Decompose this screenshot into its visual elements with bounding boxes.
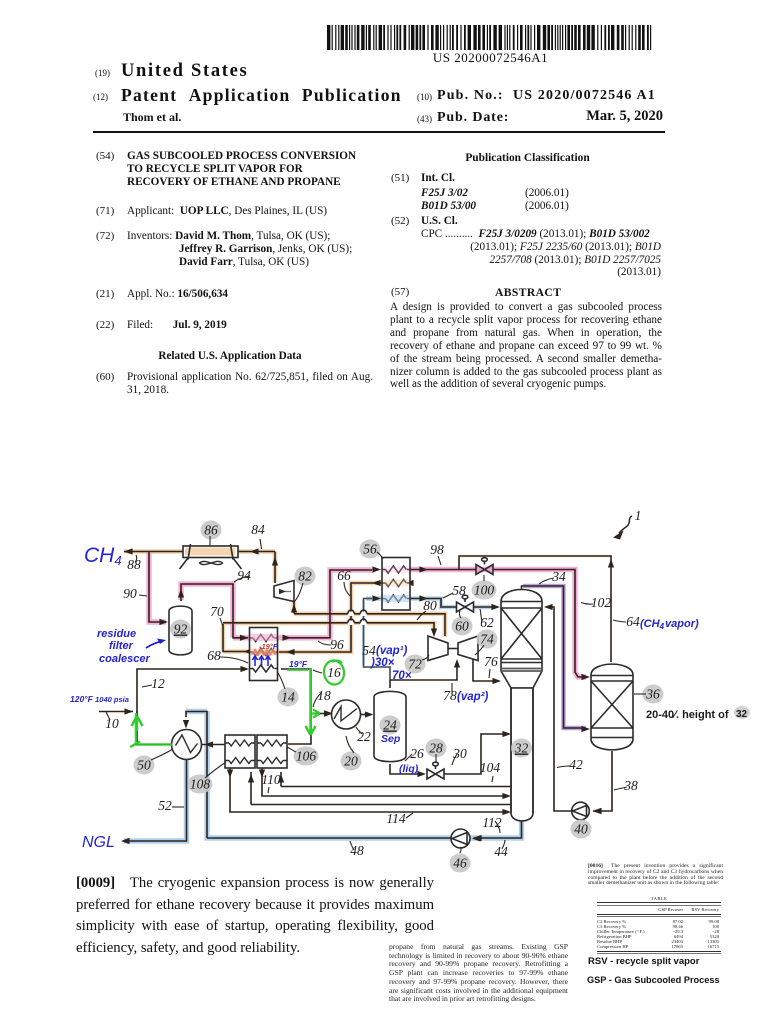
compressor 82: [274, 581, 294, 602]
svg-text:110: 110: [261, 772, 280, 787]
wire: purple line from column 34 top to vessel 36: [522, 586, 586, 728]
svg-text:46: 46: [453, 856, 467, 871]
wire: exchanger 50 to exchanger 106: [201, 744, 225, 746]
arrowheads over equipment: [324, 710, 601, 841]
svg-text:102: 102: [591, 595, 612, 610]
svg-text:36: 36: [645, 687, 660, 702]
svg-text:86: 86: [204, 523, 218, 538]
svg-text:52: 52: [158, 798, 172, 813]
comparison table: [597, 896, 721, 954]
wire 88: CH4 residue gas line: [124, 551, 275, 553]
svg-text:64: 64: [626, 614, 640, 629]
svg-text:88: 88: [127, 557, 141, 572]
vessel 36 (second demethanizer): [591, 664, 633, 750]
wire 94: filter 92 to exchanger 14: [181, 584, 248, 638]
pump 46: [451, 829, 470, 848]
column 32 (lower demethanizer): [511, 688, 533, 821]
wire highlight: purple line 34 path: [523, 586, 586, 728]
svg-text:108: 108: [190, 777, 211, 792]
wire 70: exchanger 14 to compressor 82: [294, 614, 445, 636]
svg-text:20: 20: [344, 754, 358, 769]
wire 84: [274, 552, 276, 584]
svg-text:92: 92: [174, 622, 188, 637]
svg-text:20-40∕. height of: 20-40∕. height of: [646, 709, 729, 721]
svg-text:76: 76: [484, 654, 498, 669]
svg-text:94: 94: [237, 568, 251, 583]
svg-text:(vap²): (vap²): [457, 691, 488, 703]
wire 58: exchanger 56 bottom row to valve 60: [410, 599, 457, 608]
wire 52: exchanger 50 bottoms to NGL: [126, 760, 187, 842]
svg-text:26: 26: [410, 746, 424, 761]
wire: compressor 82 suction: [293, 601, 295, 614]
wire: reboiler return upper: [262, 768, 507, 796]
wire 96: exchanger 14 to exchanger 56: [284, 570, 372, 638]
left biblio column: [96, 150, 114, 162]
svg-text:60: 60: [455, 619, 469, 634]
svg-text:filter: filter: [109, 640, 134, 652]
blue up-arrows inside exchanger 14: [252, 656, 270, 666]
svg-text:80: 80: [423, 598, 437, 613]
filter coalescer 92: [169, 606, 192, 655]
heat exchanger 20: [332, 700, 361, 729]
svg-text:16: 16: [327, 665, 341, 680]
svg-text:68: 68: [207, 648, 221, 663]
heat exchanger 14: [250, 628, 278, 681]
svg-text:1: 1: [635, 508, 642, 523]
svg-text:32: 32: [514, 741, 529, 756]
wire highlight: light blue line 58/62: [364, 599, 495, 666]
blue arrow for coalescer note: [146, 641, 163, 648]
wire 12: feed riser to exchanger 14: [137, 669, 245, 745]
wire 90: [149, 552, 166, 623]
wire 102: valve 100 to vessel 36: [492, 570, 585, 678]
column 34 (upper demethanizer section): [501, 590, 542, 689]
svg-text:114: 114: [386, 811, 405, 826]
handwritten blue annotations: [70, 544, 699, 851]
svg-text:54: 54: [362, 643, 376, 658]
expander 72: [428, 636, 448, 661]
green feed arrow: [132, 716, 143, 731]
arrowheads on wires: [124, 548, 133, 554]
svg-text:56: 56: [363, 542, 377, 557]
barcode: [0, 0, 768, 70]
green line 18 marks: [306, 668, 316, 735]
svg-text:Sep: Sep: [381, 733, 401, 745]
svg-text:32: 32: [736, 709, 748, 720]
svg-text:74: 74: [480, 632, 494, 647]
svg-text:38: 38: [623, 778, 638, 793]
svg-text:66: 66: [337, 568, 351, 583]
wire 104: column side draw: [281, 772, 511, 787]
wire 114: reboiler return lower: [230, 768, 507, 812]
svg-text:)30×: )30×: [369, 657, 395, 669]
bottom paragraphs: [76, 873, 434, 959]
svg-text:(liq): (liq): [399, 763, 419, 775]
svg-text:78: 78: [443, 688, 457, 703]
svg-text:(vap¹): (vap¹): [376, 645, 407, 657]
svg-text:34: 34: [551, 569, 566, 584]
wire 66 west leg: [223, 624, 250, 652]
valve 28: [427, 762, 444, 779]
header: [95, 68, 110, 78]
wire highlight: thick blue NGL path: [124, 711, 522, 841]
shaft 72-74: [448, 648, 458, 650]
reference numeral labels: [105, 508, 663, 873]
wire 66: exchanger 56 middle row to exchanger 14: [279, 583, 382, 652]
svg-text:40: 40: [574, 822, 588, 837]
svg-text:CH4: CH4: [84, 544, 122, 568]
handwritten black note: 20-40% height of 32: [646, 706, 750, 721]
svg-text:(CH4vapor): (CH4vapor): [640, 618, 699, 631]
wire: feed split to exchanger 50: [137, 712, 172, 745]
svg-text:82: 82: [298, 569, 312, 584]
svg-text:58: 58: [452, 583, 466, 598]
svg-text:98: 98: [430, 542, 444, 557]
svg-text:70: 70: [210, 604, 224, 619]
svg-text:90: 90: [123, 586, 137, 601]
svg-text:48: 48: [350, 843, 364, 858]
wire 64: vessel 36 overhead vapor: [459, 556, 611, 662]
svg-text:44: 44: [494, 844, 508, 859]
wire highlight: tan residue-gas path: [124, 552, 611, 653]
wire highlight: pink cold-stream path: [149, 553, 586, 677]
wire: separator 24 vapor nipple: [389, 680, 391, 688]
svg-text:62: 62: [480, 615, 494, 630]
svg-text:10: 10: [105, 716, 119, 731]
air cooler 86 tube-bundle fill: [185, 548, 235, 556]
wire 62: valve 60 to column 34: [473, 606, 496, 608]
valve 60: [457, 595, 474, 612]
svg-text:28: 28: [429, 741, 443, 756]
svg-text:14: 14: [281, 690, 295, 705]
svg-text:84: 84: [251, 522, 265, 537]
svg-text:104: 104: [480, 760, 501, 775]
wire 76: compressor 74 discharge to column: [473, 659, 497, 681]
heat exchanger 50: [172, 730, 202, 760]
wire 78: vapor split to compressor 74: [390, 663, 457, 680]
svg-text:50: 50: [137, 758, 151, 773]
svg-text:24: 24: [383, 718, 397, 733]
wire 80: to expander 72: [223, 623, 434, 630]
heat exchanger 106 (double shell): [225, 735, 287, 768]
wire: NGL loop riser: [186, 712, 207, 839]
wire hops at crossings: [348, 610, 367, 625]
pump 40: [572, 802, 590, 820]
svg-text:12: 12: [151, 676, 165, 691]
svg-text:106: 106: [296, 749, 317, 764]
svg-text:70×: 70×: [392, 670, 412, 682]
wire 18 branch to exchanger 20: [311, 713, 329, 715]
svg-text:19°F: 19°F: [289, 659, 308, 669]
wire 16/18: exchanger 14 outlet: [281, 669, 311, 744]
compressor 74: [458, 636, 478, 661]
wire 10: inlet feed: [99, 711, 133, 713]
handwritten notes bottom right: [588, 956, 699, 967]
air cooler 86: [180, 544, 242, 569]
wire: column side draw lower: [251, 772, 511, 805]
svg-text:42: 42: [569, 757, 583, 772]
svg-text:residue: residue: [97, 628, 136, 640]
wire 42: pump 40 to column 34 reflux: [546, 607, 572, 811]
svg-text:NGL: NGL: [82, 834, 115, 851]
wire 38: vessel 36 bottoms to pump 40: [593, 751, 612, 811]
green hand annotations: [130, 659, 346, 747]
separator 24: [374, 691, 406, 761]
wire 44/48: column 32 bottoms to pump 46: [474, 821, 522, 838]
svg-text:coalescer: coalescer: [99, 653, 150, 665]
wire 30: valve 28 to column 32: [444, 734, 507, 774]
wire 26: separator liquid to valve 28: [390, 764, 421, 774]
valve 100: [476, 558, 493, 575]
label leader ticks: [106, 536, 646, 853]
svg-text:96: 96: [330, 637, 344, 652]
green circle around label 16: [322, 659, 345, 686]
wire: exchanger 20 to separator 24: [361, 714, 371, 716]
figure arrow 1: [613, 516, 632, 540]
svg-text:120°F 1040 psia: 120°F 1040 psia: [70, 694, 129, 704]
right biblio column: [390, 152, 665, 164]
svg-text:100: 100: [474, 583, 495, 598]
heat exchanger 56: [382, 558, 410, 611]
wire 98: exchanger 56 to valve 100: [410, 569, 477, 571]
wire 54: separator vapor to exchanger 56: [364, 599, 391, 681]
